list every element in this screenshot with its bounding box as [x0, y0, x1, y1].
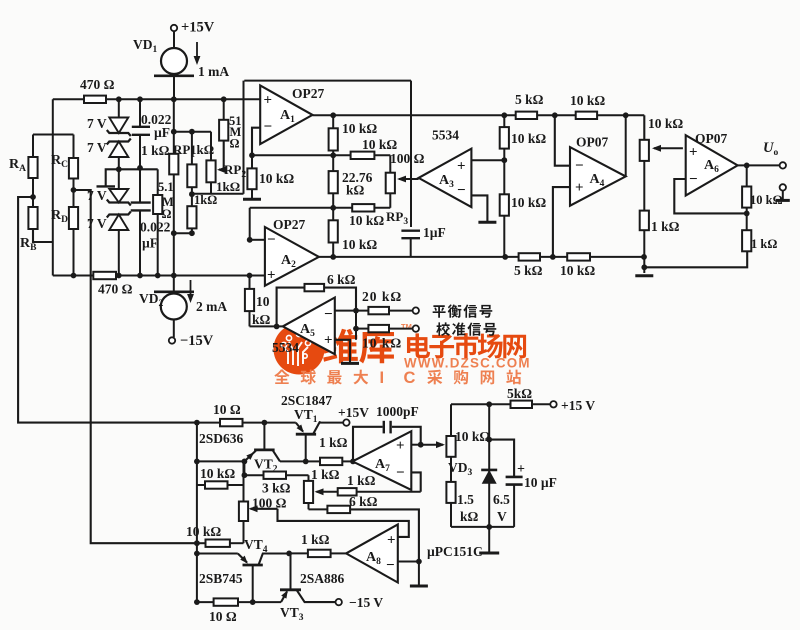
wire emitter row	[197, 460, 245, 462]
wire rail A1	[252, 154, 390, 156]
label 平衡信号	[433, 305, 446, 317]
wire 6k feedback loop	[277, 288, 356, 327]
svg-text:6 kΩ: 6 kΩ	[349, 494, 378, 509]
wire A2 minus jog	[249, 208, 251, 240]
svg-text:1 mA: 1 mA	[198, 64, 229, 79]
current source VD2	[173, 276, 175, 292]
svg-text:−15V: −15V	[180, 333, 214, 349]
svg-text:10 kΩ: 10 kΩ	[648, 116, 683, 131]
svg-text:10 Ω: 10 Ω	[209, 609, 237, 624]
resistor 10k output divider	[746, 165, 748, 186]
svg-text:10 µF: 10 µF	[524, 475, 557, 490]
wire	[280, 460, 306, 462]
svg-text:5 kΩ: 5 kΩ	[515, 92, 544, 107]
wire	[173, 76, 175, 100]
resistor 10k to ground at A1	[251, 155, 253, 168]
svg-text:1000pF: 1000pF	[376, 404, 419, 419]
svg-text:2SC1847: 2SC1847	[281, 393, 332, 408]
svg-text:10 kΩ: 10 kΩ	[560, 263, 595, 278]
resistor 22.76k	[332, 155, 334, 171]
wire RP2 wiper from 51M	[219, 141, 224, 170]
wire arrow into 10k pot	[421, 444, 443, 446]
resistor 10k top bus	[576, 112, 597, 119]
resistor 3k	[244, 474, 263, 476]
svg-text:0.022: 0.022	[140, 220, 171, 235]
wire stub left of third zener	[106, 169, 158, 186]
node RA-RB	[30, 194, 36, 200]
wire +15V supply row	[451, 403, 511, 405]
svg-text:µF: µF	[154, 125, 170, 140]
svg-text:+: +	[396, 438, 405, 454]
node RP1 bottom	[191, 187, 193, 206]
node	[416, 559, 422, 565]
resistor 10k lower A3 column	[503, 160, 505, 194]
svg-text:2SD636: 2SD636	[199, 431, 244, 446]
svg-text:7 V: 7 V	[87, 116, 107, 131]
svg-text:C: C	[404, 369, 416, 387]
wire VT2 collector to 3k row	[243, 461, 245, 475]
svg-text:100 Ω: 100 Ω	[390, 151, 425, 166]
terminal -15V	[169, 337, 175, 343]
svg-text:1µF: 1µF	[423, 225, 446, 240]
wire A2 output rail	[319, 256, 644, 258]
svg-text:V: V	[497, 509, 507, 524]
wire	[249, 311, 251, 326]
ground regulator	[488, 527, 490, 552]
terminal +15V right	[550, 401, 556, 407]
wire A6 output	[738, 164, 780, 166]
svg-text:+: +	[387, 533, 396, 549]
terminal balance signal	[413, 307, 419, 313]
svg-text:+: +	[267, 268, 276, 284]
wire from RA-RB node down left side	[18, 197, 197, 423]
svg-text:−: −	[457, 183, 466, 199]
resistor 10k horizontal upper	[351, 152, 375, 159]
potentiometer 10k A6 input	[640, 140, 649, 161]
node	[249, 152, 255, 158]
potentiometer RP2	[210, 132, 212, 161]
resistor 1k right column	[640, 211, 649, 231]
op-amp A6 OP07	[686, 135, 738, 195]
wire A7 minus jog	[411, 472, 420, 491]
resistor 1.5k	[446, 482, 455, 503]
wire	[532, 403, 550, 405]
resistor 5.1M	[157, 169, 159, 195]
capacitor 1uF	[401, 229, 420, 231]
wire A5 plus to ground	[335, 340, 350, 362]
ground below A8	[418, 562, 420, 585]
wire VD3 column	[488, 404, 490, 527]
terminal +15V mid	[343, 419, 349, 425]
wire	[173, 320, 175, 338]
svg-text:10 kΩ: 10 kΩ	[362, 336, 402, 351]
wire	[73, 179, 75, 208]
resistor 1k VT1 to A7	[320, 458, 342, 465]
potentiometer RP3 100 ohm	[389, 155, 391, 172]
svg-text:2SB745: 2SB745	[199, 571, 243, 586]
wire left column	[52, 99, 54, 275]
svg-text:1 kΩ: 1 kΩ	[301, 532, 330, 547]
resistor 1k output divider	[742, 230, 751, 251]
svg-text:1 kΩ: 1 kΩ	[319, 435, 348, 450]
wire	[306, 460, 320, 462]
svg-text:1.5: 1.5	[457, 492, 474, 507]
svg-text:20 kΩ: 20 kΩ	[362, 289, 402, 304]
node	[623, 112, 629, 118]
resistor 6k lower	[309, 508, 328, 510]
capacitor 10uF	[506, 476, 523, 479]
svg-text:2 mA: 2 mA	[196, 299, 227, 314]
arrow 2 mA	[190, 280, 192, 300]
wire	[243, 422, 296, 424]
wire bus corner to pot	[643, 115, 645, 140]
svg-text:10 kΩ: 10 kΩ	[362, 137, 397, 152]
terminal lower output	[780, 184, 786, 190]
svg-text:6 kΩ: 6 kΩ	[327, 272, 356, 287]
svg-text:µPC151C: µPC151C	[427, 544, 483, 559]
resistor RD	[69, 207, 78, 229]
terminal -15V bottom	[336, 599, 342, 605]
svg-text:−: −	[575, 158, 584, 174]
svg-text:10 kΩ: 10 kΩ	[200, 466, 235, 481]
transistor VT2 2SD636	[263, 423, 265, 450]
node	[330, 112, 336, 118]
wire A1 enclosure left	[243, 81, 245, 194]
wire to +15V terminal	[320, 422, 343, 424]
node	[552, 112, 558, 118]
svg-text:WWW.DZSC.COM: WWW.DZSC.COM	[404, 356, 531, 371]
svg-text:TM: TM	[401, 322, 412, 331]
svg-text:OP27: OP27	[273, 217, 305, 232]
wire	[643, 161, 645, 211]
wire A4 minus input	[555, 115, 570, 165]
svg-text:2SA886: 2SA886	[300, 571, 345, 586]
wire cap branch	[489, 440, 514, 477]
svg-text:+15V: +15V	[181, 20, 215, 36]
potentiometer RP1	[191, 132, 193, 165]
svg-text:10 kΩ: 10 kΩ	[511, 131, 546, 146]
watermark text 全球最大IC采购网站	[274, 370, 289, 385]
resistor 10k below rail	[332, 208, 334, 221]
resistor 10 ohm upper	[197, 422, 220, 424]
svg-text:10 Ω: 10 Ω	[213, 402, 241, 417]
wire A3 output to RP3 wiper	[399, 178, 419, 180]
wire 6k row to A8 minus column	[350, 509, 419, 561]
resistor 5k lower rail	[519, 253, 540, 260]
wire A7 plus jog	[411, 444, 420, 446]
wire from RC-RD node down to 10k row	[74, 190, 197, 543]
svg-text:10 kΩ: 10 kΩ	[349, 213, 384, 228]
resistor 10 ohm lower	[197, 601, 214, 603]
resistor 51M	[223, 99, 225, 120]
svg-text:I: I	[380, 369, 385, 387]
resistor 20k	[368, 307, 389, 314]
svg-text:kΩ: kΩ	[252, 312, 271, 327]
svg-text:10 kΩ: 10 kΩ	[342, 121, 377, 136]
zener diode 7V third	[109, 189, 128, 203]
wire	[191, 228, 193, 233]
node RC-RD	[71, 187, 77, 193]
node	[71, 273, 77, 279]
zener diode 7V fourth	[109, 215, 128, 231]
ground under terminal	[782, 191, 784, 199]
resistor 1k A7 feedback	[357, 491, 421, 493]
resistor RC	[73, 135, 75, 159]
resistor 5k supply	[511, 401, 533, 408]
svg-text:1 kΩ: 1 kΩ	[651, 219, 680, 234]
potentiometer 1k vertical	[304, 481, 313, 503]
resistor 6k	[305, 284, 325, 291]
op-amp A4 OP07	[570, 147, 626, 206]
label 校准信号	[436, 322, 450, 335]
resistor RA	[32, 135, 34, 158]
svg-text:1 kΩ: 1 kΩ	[141, 143, 170, 158]
svg-text:5.1: 5.1	[158, 180, 174, 194]
svg-text:1 kΩ: 1 kΩ	[751, 237, 777, 251]
wire top bus	[53, 98, 260, 100]
svg-text:+: +	[575, 180, 584, 196]
watermark logo circle	[274, 324, 325, 375]
op-amp A8	[346, 524, 398, 582]
svg-text:10 kΩ: 10 kΩ	[186, 524, 221, 539]
resistor 1k center	[169, 154, 178, 175]
node	[746, 208, 748, 231]
svg-text:+: +	[689, 145, 698, 161]
arrow 1 mA	[196, 42, 198, 62]
wire mid row 10k	[355, 311, 357, 340]
svg-text:10 kΩ: 10 kΩ	[455, 429, 490, 444]
resistor 10k feedback A1	[332, 115, 334, 128]
wire	[389, 310, 413, 312]
wire RP top tie	[174, 131, 211, 133]
resistor 470 ohm bottom	[93, 272, 116, 279]
wire	[191, 193, 244, 195]
svg-text:7 V: 7 V	[87, 140, 107, 155]
svg-text:+: +	[324, 333, 333, 349]
wire A1 output rail	[313, 114, 645, 116]
node	[353, 308, 359, 314]
resistor 10k from bus to A5	[249, 276, 251, 289]
wire RA RC top tie	[33, 134, 74, 136]
svg-text:Ω: Ω	[230, 137, 240, 151]
svg-text:kΩ: kΩ	[346, 183, 365, 198]
svg-text:5534: 5534	[272, 340, 299, 355]
wire A3 minus to ground	[471, 195, 487, 221]
svg-text:5 kΩ: 5 kΩ	[514, 263, 543, 278]
wire	[118, 230, 120, 276]
potentiometer 10k VD3	[450, 404, 452, 436]
svg-text:3 kΩ: 3 kΩ	[262, 481, 291, 496]
capacitor 1000pF feedback	[353, 427, 383, 462]
wire bottom bus	[53, 275, 265, 277]
current source VD1	[161, 48, 187, 74]
node	[502, 254, 508, 260]
wire A4 plus input	[553, 187, 570, 257]
node	[194, 420, 200, 426]
svg-text:−: −	[264, 119, 273, 135]
svg-text:6.5: 6.5	[493, 492, 510, 507]
resistor 10k horizontal lower	[352, 204, 374, 211]
resistor 5k top bus	[516, 112, 537, 119]
wire pot to 6k row	[308, 503, 310, 509]
node	[550, 254, 556, 260]
wire A4 output up	[625, 115, 627, 176]
svg-text:−: −	[386, 558, 395, 574]
svg-text:470 Ω: 470 Ω	[80, 77, 115, 92]
resistor RB	[28, 207, 37, 229]
watermark text 维库	[323, 328, 358, 363]
resistor 10k upper A3 column	[503, 115, 505, 127]
resistor 1k below RP1	[187, 206, 196, 228]
ground right column	[635, 274, 653, 277]
capacitor 0.022uF lower	[139, 168, 141, 202]
wire A6 minus feedback	[674, 179, 746, 213]
wire	[173, 31, 175, 48]
svg-text:OP07: OP07	[695, 131, 727, 146]
svg-text:+: +	[457, 159, 466, 175]
wire A8 minus row	[398, 561, 419, 563]
resistor 470 ohm top	[84, 96, 106, 103]
svg-text:+15V: +15V	[338, 405, 369, 420]
resistor 1k to A8	[308, 550, 331, 557]
svg-text:10: 10	[256, 294, 270, 309]
wire	[643, 230, 645, 273]
svg-text:1 kΩ: 1 kΩ	[311, 467, 340, 482]
wire A6 plus with arrow	[654, 147, 683, 149]
wire	[118, 99, 120, 117]
wire VT1 emitter down	[305, 434, 307, 461]
wire RB bottom	[33, 229, 53, 242]
watermark text 电子市场网	[407, 333, 430, 358]
svg-text:10 kΩ: 10 kΩ	[570, 93, 605, 108]
op-amp A7	[353, 431, 412, 490]
wire	[450, 503, 452, 527]
svg-text:OP27: OP27	[292, 86, 324, 101]
svg-text:+: +	[264, 93, 273, 109]
resistor 10k mid-left	[196, 423, 198, 602]
svg-text:5kΩ: 5kΩ	[507, 386, 532, 401]
wire A3 plus input	[471, 159, 504, 161]
wire	[32, 178, 34, 207]
wire	[450, 457, 452, 482]
zener diode VD3	[481, 469, 497, 472]
resistor 10k to terminal	[368, 325, 389, 332]
svg-text:+15 V: +15 V	[561, 398, 595, 413]
wire VD1 column	[173, 99, 175, 154]
op-amp A2 OP27	[265, 227, 319, 286]
wire	[286, 474, 309, 476]
svg-text:1kΩ: 1kΩ	[216, 179, 240, 194]
svg-text:10 kΩ: 10 kΩ	[342, 237, 377, 252]
node	[641, 254, 647, 260]
svg-text:470 Ω: 470 Ω	[98, 282, 133, 297]
svg-text:10 kΩ: 10 kΩ	[259, 171, 294, 186]
terminal Uo	[780, 162, 786, 168]
terminal +15V top	[171, 25, 177, 31]
svg-text:−: −	[396, 465, 405, 481]
wire lower right rail	[644, 251, 747, 267]
op-amp A3 5534	[419, 149, 472, 208]
svg-text:−: −	[267, 232, 276, 248]
wire	[173, 174, 175, 275]
svg-text:kΩ: kΩ	[460, 509, 479, 524]
svg-text:1kΩ: 1kΩ	[194, 193, 217, 207]
svg-text:10 kΩ: 10 kΩ	[511, 195, 546, 210]
wire A5 minus row	[335, 310, 369, 312]
capacitor 0.022uF top	[139, 99, 141, 126]
wire rail middle	[250, 207, 391, 209]
svg-text:−: −	[324, 307, 333, 323]
wire	[118, 157, 120, 189]
wire A1 minus input	[252, 128, 260, 156]
zener diode 7V first	[109, 118, 128, 134]
wire	[389, 328, 413, 330]
wire bottom row regulator	[451, 526, 514, 528]
resistor 10k lower rail	[567, 253, 590, 260]
wire	[243, 521, 245, 543]
wire	[331, 552, 347, 554]
svg-text:OP07: OP07	[576, 135, 608, 150]
wire arrow into 1k pot	[317, 491, 338, 493]
svg-text:−: −	[689, 172, 698, 188]
wire 100ohm wiper row	[251, 508, 278, 510]
zener diode 7V second	[109, 142, 128, 158]
svg-text:5534: 5534	[432, 128, 459, 143]
op-amp A1 OP27	[260, 85, 312, 144]
svg-text:1 kΩ: 1 kΩ	[347, 473, 376, 488]
terminal calibration signal	[413, 325, 419, 331]
op-amp A5 5534	[283, 298, 335, 355]
potentiometer 100 ohm	[243, 461, 245, 501]
wire RD bottom	[73, 229, 75, 276]
svg-text:10 kΩ: 10 kΩ	[750, 193, 783, 207]
svg-text:Ω: Ω	[162, 207, 172, 221]
wire A1 enclosure top	[244, 80, 411, 82]
wire A1 enclosure right to 1uF	[410, 81, 412, 227]
svg-text:µF: µF	[142, 236, 158, 251]
wire 10k row	[194, 540, 200, 546]
svg-text:−15 V: −15 V	[349, 595, 383, 610]
